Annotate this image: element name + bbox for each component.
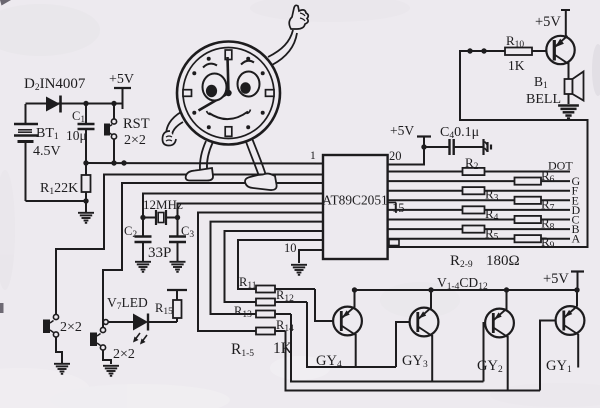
svg-text:2×2: 2×2 — [124, 133, 146, 148]
svg-text:AT89C2051: AT89C2051 — [322, 193, 387, 208]
svg-text:1K: 1K — [508, 58, 525, 73]
svg-text:15: 15 — [392, 201, 405, 215]
svg-text:A: A — [572, 232, 581, 246]
svg-text:33P: 33P — [148, 245, 171, 261]
svg-text:V7LED: V7LED — [107, 295, 148, 312]
svg-text:2×2: 2×2 — [113, 347, 135, 362]
svg-text:+5V: +5V — [535, 14, 561, 30]
svg-text:1: 1 — [310, 150, 316, 162]
svg-text:1K: 1K — [273, 340, 293, 357]
svg-text:C40.1μ: C40.1μ — [440, 125, 479, 141]
svg-text:D2IN4007: D2IN4007 — [24, 76, 86, 93]
svg-text:4.5V: 4.5V — [33, 144, 61, 159]
svg-text:+5V: +5V — [543, 271, 569, 287]
svg-text:DOT: DOT — [548, 159, 573, 173]
svg-text:RST: RST — [123, 116, 150, 132]
svg-text:20: 20 — [389, 149, 402, 163]
svg-text:10: 10 — [284, 241, 297, 255]
svg-text:180Ω: 180Ω — [486, 253, 520, 269]
svg-text:BELL: BELL — [526, 92, 561, 107]
svg-text:10μ: 10μ — [66, 128, 87, 143]
svg-text:R122K: R122K — [40, 181, 78, 197]
svg-text:12MHz: 12MHz — [143, 197, 183, 212]
svg-text:2×2: 2×2 — [60, 320, 82, 335]
svg-text:+5V: +5V — [390, 123, 414, 138]
svg-text:+5V: +5V — [109, 72, 134, 87]
